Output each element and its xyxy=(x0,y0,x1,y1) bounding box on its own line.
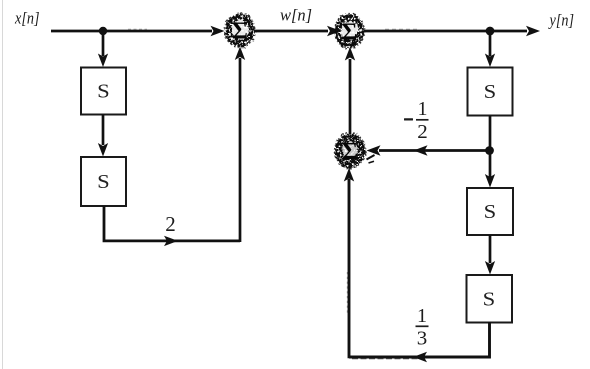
wire input to node A xyxy=(51,30,212,33)
svg-text:S: S xyxy=(483,289,496,311)
svg-text:Σ: Σ xyxy=(342,20,358,46)
svg-text:S: S xyxy=(484,81,497,103)
delay SR3 xyxy=(467,275,513,323)
scan smudge under gain 1/3 wire xyxy=(352,358,418,360)
gain label -1/2 xyxy=(404,98,429,143)
svg-text:S: S xyxy=(97,171,110,193)
svg-text:Σ: Σ xyxy=(232,19,248,45)
arrowhead into adder S2 bottom xyxy=(345,47,355,61)
wire node B down to delay SR1 xyxy=(489,33,492,56)
arrow into adder S2 xyxy=(327,26,341,36)
wire up into adder S3 bottom xyxy=(348,179,351,358)
delay SL1 xyxy=(81,68,126,115)
wire SR3 down and left (gain 1/3 branch) xyxy=(349,322,490,357)
svg-text:2: 2 xyxy=(165,212,176,236)
scan smudge on top wire after node A xyxy=(128,28,147,30)
svg-text:y[n]: y[n] xyxy=(548,11,574,30)
stray scan tick xyxy=(369,161,375,163)
wire adder S1 to adder S2 xyxy=(254,30,328,33)
wire up into adder S1 xyxy=(239,58,242,242)
svg-text:1: 1 xyxy=(417,305,427,327)
arrowhead into delay SR1 xyxy=(485,54,495,68)
svg-text:x[n]: x[n] xyxy=(14,9,39,28)
svg-text:S: S xyxy=(484,201,497,223)
arrowhead into delay SL1 xyxy=(98,54,108,68)
arrowhead into delay SL2 xyxy=(98,143,108,157)
wire SR1 down to node C xyxy=(489,116,492,153)
svg-text:S: S xyxy=(97,81,110,103)
svg-text:Σ: Σ xyxy=(342,139,358,165)
svg-text:w[n]: w[n] xyxy=(280,6,312,25)
wire node C left toward adder S3 xyxy=(379,149,488,152)
scan smudge on feedback wire left edge xyxy=(346,272,348,315)
mid arrowhead pointing left (gain -1/2 branch) xyxy=(414,145,428,155)
output arrowhead xyxy=(526,26,540,36)
adder S3 xyxy=(335,133,365,168)
wire SL2 down and right (gain 2 branch) xyxy=(104,206,240,241)
adder S1 xyxy=(225,14,254,47)
svg-text:3: 3 xyxy=(417,328,428,350)
node C xyxy=(485,146,494,155)
mid arrowhead pointing left (gain 1/3 branch) xyxy=(413,352,427,362)
wire SR2 to SR3 xyxy=(489,235,492,263)
delay SR2 xyxy=(467,188,513,235)
arrow into adder S1 xyxy=(211,26,225,36)
svg-text:1: 1 xyxy=(418,98,428,120)
node A (input pick-off) xyxy=(99,27,107,35)
arrowhead into delay SR3 xyxy=(485,261,495,275)
wire SL1 to SL2 xyxy=(102,115,105,146)
stray scan mark near adder S3 xyxy=(367,155,375,160)
arrowhead into adder S1 bottom xyxy=(235,47,245,61)
adder S2 xyxy=(335,14,364,47)
arrowhead into delay SR2 xyxy=(485,174,495,188)
wire node A down to delay SL1 xyxy=(102,33,105,56)
scan smudge on wire after adder S2 xyxy=(385,28,420,30)
wire node C down to delay SR2 xyxy=(489,153,492,177)
delay SR1 xyxy=(468,68,513,116)
wire adder S3 up to adder S2 xyxy=(349,59,352,134)
arrowhead gain-2 branch pointing right xyxy=(164,236,178,246)
wire adder S2 to node B and output xyxy=(364,30,528,33)
gain label 1/3 xyxy=(416,305,429,350)
node B (output pick-off) xyxy=(486,27,495,36)
svg-text:2: 2 xyxy=(417,121,428,143)
arrowhead into adder S3 right xyxy=(367,145,381,155)
faint scan border at left edge xyxy=(2,0,4,369)
delay SL2 xyxy=(81,157,126,206)
arrowhead into adder S3 bottom xyxy=(344,168,354,182)
